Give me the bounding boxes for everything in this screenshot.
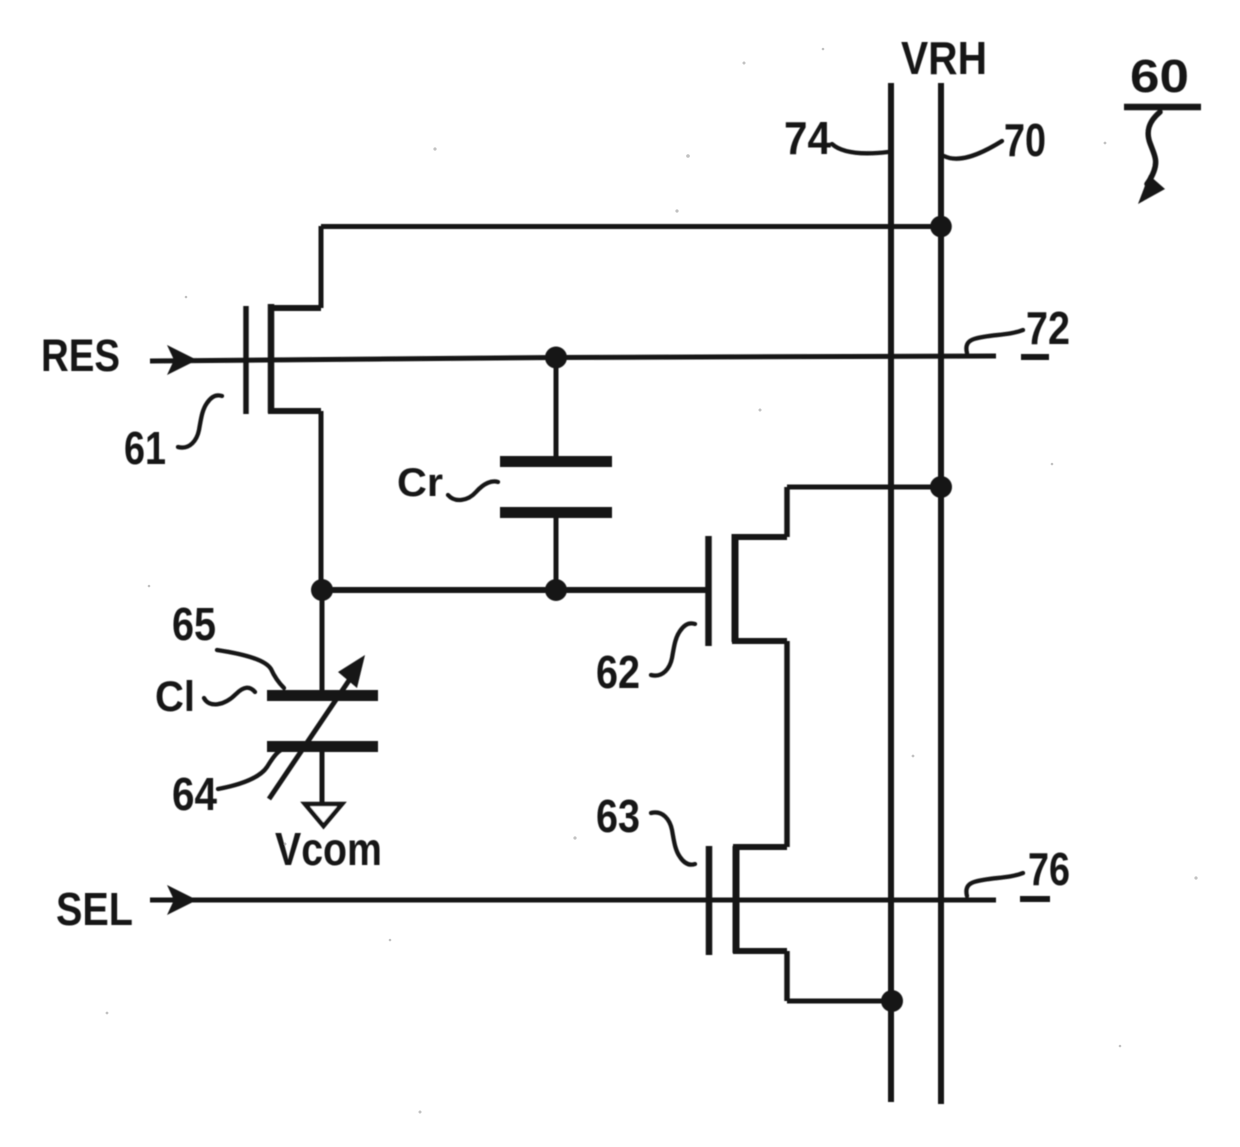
svg-text:RES: RES <box>41 330 120 381</box>
svg-text:VRH: VRH <box>901 32 987 84</box>
svg-text:Cr: Cr <box>397 461 443 505</box>
svg-text:76: 76 <box>1028 843 1070 895</box>
svg-text:Cl: Cl <box>155 673 195 721</box>
svg-text:61: 61 <box>124 422 166 474</box>
svg-text:74: 74 <box>784 112 831 164</box>
svg-text:64: 64 <box>172 768 217 820</box>
svg-text:60: 60 <box>1130 50 1189 102</box>
svg-text:SEL: SEL <box>56 883 133 935</box>
svg-text:65: 65 <box>172 598 216 650</box>
svg-text:Vcom: Vcom <box>275 823 382 875</box>
svg-text:62: 62 <box>596 646 640 698</box>
svg-text:70: 70 <box>1004 114 1046 166</box>
svg-text:63: 63 <box>596 790 640 842</box>
svg-text:72: 72 <box>1026 302 1070 354</box>
